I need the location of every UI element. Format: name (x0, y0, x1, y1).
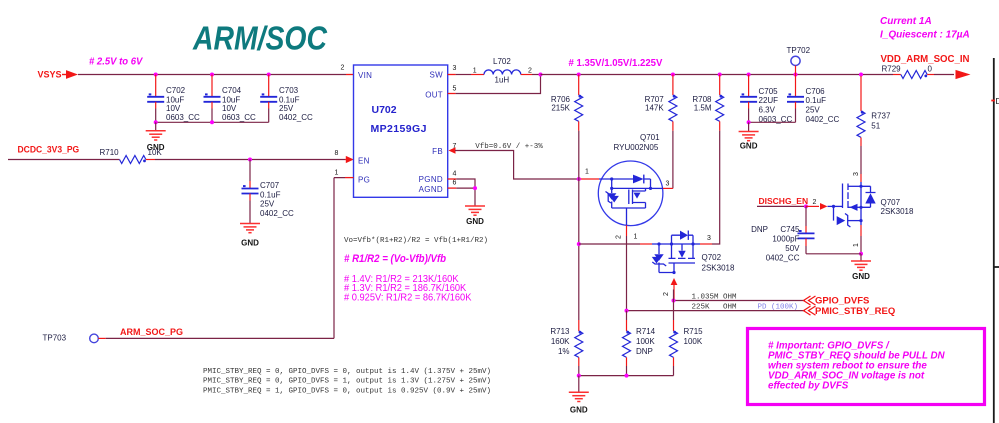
svg-text:160K: 160K (551, 337, 570, 346)
svg-text:0603_CC: 0603_CC (222, 113, 256, 122)
ground GND (input caps) (146, 131, 166, 140)
inductor L702 (471, 57, 532, 84)
ground GND (C707) (240, 224, 260, 233)
svg-text:# 2.5V to 6V: # 2.5V to 6V (89, 56, 144, 67)
junction PGND/AGND (473, 186, 477, 190)
svg-text:0402_CC: 0402_CC (279, 113, 313, 122)
svg-text:U702: U702 (372, 104, 397, 116)
junction PMIC line/Q701 gate/R714 (625, 309, 629, 313)
wire output rail (541, 74, 894, 76)
svg-text:GPIO_DVFS: GPIO_DVFS (815, 296, 869, 307)
capacitor C704 (204, 75, 257, 123)
wire bottom ground rail (579, 366, 674, 376)
resistor R737 (857, 76, 891, 146)
svg-text:1: 1 (634, 234, 638, 241)
wire to input GND (155, 122, 157, 131)
junction R713/GND rail (577, 374, 581, 378)
svg-text:GND: GND (241, 238, 259, 247)
junction rail/R708 (718, 73, 722, 77)
svg-text:10K: 10K (148, 148, 163, 157)
svg-text:MP2159GJ: MP2159GJ (371, 123, 427, 135)
svg-text:R714: R714 (636, 327, 656, 336)
testpoint TP702 (787, 46, 811, 75)
junction DISCHG_EN/C745 (804, 204, 808, 208)
svg-text:1.035M OHM: 1.035M OHM (692, 293, 738, 301)
svg-text:1.5M: 1.5M (694, 104, 712, 113)
svg-text:R713: R713 (550, 327, 570, 336)
svg-text:DNP: DNP (751, 225, 768, 234)
svg-text:R729: R729 (882, 64, 902, 73)
svg-text:10V: 10V (222, 104, 237, 113)
wire DCDC_3V3_PG to R710 (8, 159, 120, 161)
svg-text:10uF: 10uF (166, 96, 184, 105)
wire DISCHG_EN to Q707 gate (757, 205, 806, 207)
svg-text:Vo=Vfb*(R1+R2)/R2 = Vfb(1+R1/R: Vo=Vfb*(R1+R2)/R2 = Vfb(1+R1/R2) (344, 237, 488, 245)
junction VSYS/C704 (210, 73, 214, 77)
wire PMIC_STBY_REQ line (627, 310, 806, 312)
svg-text:R710: R710 (100, 148, 120, 157)
svg-text:PG: PG (358, 176, 370, 185)
capacitor C706 (787, 75, 840, 125)
svg-text:2: 2 (341, 65, 345, 72)
junction R714/GND rail (625, 374, 629, 378)
svg-text:L702: L702 (493, 57, 511, 66)
svg-text:C707: C707 (260, 181, 280, 190)
svg-text:TP703: TP703 (43, 334, 67, 343)
wire input cap ground rail (156, 121, 269, 123)
resistor R715 (670, 320, 704, 366)
pin stub Q702 drain (red) (693, 243, 700, 245)
pin stub Q701 pin1 (red) (579, 178, 599, 180)
svg-text:100K: 100K (636, 337, 655, 346)
sheet border (right edge of frame) (991, 58, 999, 423)
resistor R706 (551, 75, 583, 131)
svg-text:C704: C704 (222, 86, 242, 95)
wire AGND junction to GND (456, 188, 475, 206)
wire output cap ground rail (749, 121, 796, 123)
svg-text:R707: R707 (645, 95, 665, 104)
svg-text:VSYS: VSYS (38, 70, 62, 80)
transistor Q701 RYU002N05 (598, 133, 663, 226)
svg-text:22UF: 22UF (759, 96, 779, 105)
svg-text:6.3V: 6.3V (759, 106, 776, 115)
svg-text:PMIC_STBY_REQ = 0, GPIO_DVFS =: PMIC_STBY_REQ = 0, GPIO_DVFS = 0, output… (203, 368, 491, 376)
svg-text:25V: 25V (806, 106, 821, 115)
off-page connector GPIO_DVFS (804, 296, 816, 305)
svg-text:Vfb=0.6V / +-3%: Vfb=0.6V / +-3% (475, 143, 543, 151)
junction C705/GND rail (747, 120, 751, 124)
svg-text:3: 3 (666, 181, 670, 188)
svg-text:# 0.925V: R1/R2 = 86.7K/160K: # 0.925V: R1/R2 = 86.7K/160K (344, 292, 472, 303)
svg-text:PGND: PGND (419, 175, 443, 184)
svg-text:AGND: AGND (419, 185, 443, 194)
junction rail/C705 (747, 73, 751, 77)
svg-text:1: 1 (585, 169, 589, 176)
svg-text:5: 5 (453, 86, 457, 93)
resistor R714 (DNP) (623, 320, 656, 366)
capacitor C702 (147, 75, 200, 123)
junction FB node (577, 177, 581, 181)
capacitor C703 (260, 75, 313, 123)
svg-text:225K OHM: 225K OHM (692, 303, 738, 311)
testpoint TP703 (43, 334, 106, 343)
svg-text:C745: C745 (780, 225, 800, 234)
svg-text:2: 2 (528, 68, 532, 75)
svg-text:0: 0 (928, 64, 933, 73)
wire Q707 source to GND (860, 221, 862, 225)
junction VSYS/C702 (154, 73, 158, 77)
ground GND (output caps) (739, 132, 759, 141)
svg-text:4: 4 (453, 171, 457, 178)
pin stub VIN pin 2 (red) (346, 74, 354, 76)
junction rail/R737-R729 (859, 73, 863, 77)
wire GPIO line to R715 (673, 290, 675, 321)
svg-text:2SK3018: 2SK3018 (881, 207, 914, 216)
wire FB to divider node (455, 151, 579, 180)
wire R708 to Q702 drain (712, 131, 720, 244)
svg-text:VIN: VIN (358, 71, 372, 80)
svg-text:2: 2 (663, 292, 670, 296)
wire junction to GND symbol (860, 254, 862, 261)
svg-text:0402_CC: 0402_CC (806, 115, 840, 124)
svg-text:C706: C706 (806, 87, 826, 96)
svg-text:25V: 25V (279, 104, 294, 113)
junction output node (SW/OUT) (539, 73, 543, 77)
wire R737 to Q707 drain (860, 146, 862, 174)
svg-text:C702: C702 (166, 86, 186, 95)
svg-text:EN: EN (358, 157, 370, 166)
ground GND (U702 AGND) (465, 206, 485, 215)
resistor R713 (550, 320, 582, 366)
svg-text:SW: SW (430, 71, 444, 80)
svg-text:3: 3 (453, 65, 457, 72)
svg-text:0.1uF: 0.1uF (279, 96, 300, 105)
resistor R708 (692, 75, 723, 131)
ground GND (Q707) (851, 261, 871, 270)
svg-text:1000pF: 1000pF (772, 235, 799, 244)
wire R729 to port (934, 74, 954, 76)
off-page connector PMIC_STBY_REQ (804, 306, 816, 315)
svg-text:1: 1 (853, 243, 860, 247)
pin stub SW pin 3 (red) (448, 74, 456, 76)
svg-text:50V: 50V (785, 244, 800, 253)
junction rail/C704 (210, 120, 214, 124)
svg-text:PMIC_STBY_REQ: PMIC_STBY_REQ (815, 306, 895, 317)
junction rail/TP702-C706 (794, 73, 798, 77)
svg-text:2: 2 (813, 199, 817, 206)
port arrow VDD_ARM_SOC_IN (956, 70, 971, 79)
wire Q701 gate to PMIC line (626, 236, 628, 311)
svg-text:Q701: Q701 (640, 133, 660, 142)
svg-text:Current 1A: Current 1A (880, 16, 932, 27)
svg-text:D: D (996, 96, 999, 106)
svg-text:0402_CC: 0402_CC (260, 209, 294, 218)
junction rail/C702-GND (154, 120, 158, 124)
svg-text:10uF: 10uF (222, 96, 240, 105)
svg-text:GND: GND (466, 217, 484, 226)
resistor R707 (645, 75, 677, 131)
svg-text:10V: 10V (166, 104, 181, 113)
svg-text:# 1.35V/1.05V/1.225V: # 1.35V/1.05V/1.225V (569, 58, 663, 69)
junction Q707 source/C745 (859, 252, 863, 256)
svg-text:0402_CC: 0402_CC (766, 254, 800, 263)
svg-text:RYU002N05: RYU002N05 (614, 143, 659, 152)
wire Q701 gate line to R714 (626, 311, 628, 320)
svg-text:DISCHG_EN: DISCHG_EN (759, 196, 809, 206)
wire L702 to output node (532, 74, 541, 76)
svg-text:PMIC_STBY_REQ = 0, GPIO_DVFS =: PMIC_STBY_REQ = 0, GPIO_DVFS = 1, output… (203, 378, 491, 386)
wire to bottom GND (578, 376, 580, 393)
pin stub OUT pin 5 (red) (448, 93, 456, 95)
wire R706 to FB node to R713 (578, 131, 580, 320)
op-amp U702 MP2159GJ body (354, 65, 448, 197)
wire to output GND (748, 122, 750, 131)
wire OUT to output node (456, 75, 541, 94)
svg-text:6: 6 (453, 180, 457, 187)
svg-text:8: 8 (335, 150, 339, 157)
wire C745 to Q707 source node (806, 253, 861, 255)
svg-text:GND: GND (852, 272, 870, 281)
svg-text:GND: GND (740, 142, 758, 151)
svg-text:25V: 25V (260, 200, 275, 209)
pin stub AGND pin 6 (red) (448, 187, 457, 189)
svg-text:215K: 215K (551, 104, 570, 113)
svg-text:TP702: TP702 (787, 46, 811, 55)
transistor Q702 2SK3018 (579, 231, 735, 275)
transistor Q707 2SK3018 (828, 174, 914, 227)
svg-text:R706: R706 (551, 95, 571, 104)
wire R707 to Q701 drain (672, 131, 674, 189)
svg-text:effected by DVFS: effected by DVFS (768, 381, 849, 392)
svg-text:OUT: OUT (425, 91, 443, 100)
svg-text:3: 3 (853, 172, 860, 176)
annotation PMIC_STBY_REQ truth table (203, 368, 491, 395)
svg-text:GND: GND (570, 406, 588, 415)
svg-text:DNP: DNP (636, 347, 653, 356)
svg-text:# R1/R2 = (Vo-Vfb)/Vfb: # R1/R2 = (Vo-Vfb)/Vfb (344, 254, 447, 266)
svg-text:0603_CC: 0603_CC (166, 113, 200, 122)
ground GND (divider) (569, 392, 589, 401)
pin stub PGND pin 4 (red) (448, 178, 457, 180)
junction FB/Q702 source row (577, 242, 581, 246)
svg-text:R737: R737 (871, 112, 891, 121)
svg-text:2SK3018: 2SK3018 (702, 264, 735, 273)
svg-text:Q702: Q702 (702, 253, 722, 262)
svg-text:2: 2 (616, 235, 623, 239)
wire R710 to EN pin (155, 159, 345, 161)
svg-text:PMIC_STBY_REQ = 1, GPIO_DVFS =: PMIC_STBY_REQ = 1, GPIO_DVFS = 0, output… (203, 387, 491, 395)
svg-text:51: 51 (871, 122, 880, 131)
svg-text:R715: R715 (684, 327, 704, 336)
svg-text:ARM/SOC: ARM/SOC (192, 19, 328, 57)
svg-text:DCDC_3V3_PG: DCDC_3V3_PG (18, 144, 80, 154)
wire VSYS rail to VIN (78, 74, 346, 76)
svg-text:PD (100K): PD (100K) (758, 303, 799, 311)
wire GPIO_DVFS line (674, 300, 806, 302)
svg-text:FB: FB (432, 147, 443, 156)
svg-text:3: 3 (707, 235, 711, 242)
svg-text:C705: C705 (759, 87, 779, 96)
capacitor C745 (DNP) (751, 206, 814, 262)
svg-text:Q707: Q707 (881, 198, 901, 207)
svg-text:C703: C703 (279, 86, 299, 95)
svg-text:1%: 1% (558, 347, 570, 356)
pin arrow FB pin 7 (red) (449, 147, 456, 153)
pin arrow EN pin 8 (red) (345, 159, 348, 161)
wire PG to ARM_SOC_PG / TP703 (345, 177, 354, 179)
svg-text:R708: R708 (692, 95, 712, 104)
svg-text:ARM_SOC_PG: ARM_SOC_PG (120, 327, 183, 337)
svg-text:147K: 147K (645, 104, 664, 113)
svg-text:1uH: 1uH (495, 76, 510, 85)
port arrow VSYS (62, 74, 66, 76)
resistor R710 (100, 148, 163, 163)
svg-text:VDD_ARM_SOC_IN: VDD_ARM_SOC_IN (881, 54, 970, 65)
wire SW to L702 (456, 74, 471, 76)
svg-text:1: 1 (473, 68, 477, 75)
capacitor C707 (242, 160, 295, 224)
junction VSYS/C703 (267, 73, 271, 77)
pin arrow Q707 gate (red) (806, 205, 819, 207)
resistor R729 (882, 64, 935, 78)
junction rail/R706 (577, 73, 581, 77)
note box Important (748, 329, 985, 405)
svg-text:0.1uF: 0.1uF (260, 191, 281, 200)
svg-text:I_Quiescent : 17µA: I_Quiescent : 17µA (880, 30, 970, 41)
svg-text:0.1uF: 0.1uF (806, 96, 827, 105)
junction EN/C707 (248, 158, 252, 162)
pin arrow Q702 gate (red) (671, 278, 678, 285)
pin stub Q701 pin3 (red) (651, 187, 664, 189)
svg-text:1: 1 (335, 170, 339, 177)
pin stub Q701 gate (red) (626, 225, 628, 236)
capacitor C705 (740, 75, 792, 125)
junction GPIO line/Q702 gate/R715 (672, 299, 676, 303)
svg-text:100K: 100K (684, 337, 703, 346)
junction rail/R707 (671, 73, 675, 77)
wire PGND to AGND (456, 179, 475, 188)
